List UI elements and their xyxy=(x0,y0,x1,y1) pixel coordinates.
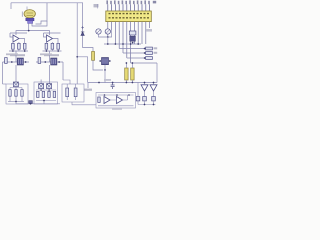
wire top supply rail xyxy=(11,2,83,4)
wire U1B output xyxy=(53,39,59,44)
capacitor C6 xyxy=(111,83,115,90)
node G2 xyxy=(115,43,117,45)
wire left stub xyxy=(10,3,12,9)
resistor R7 xyxy=(5,58,8,64)
crystal X1 xyxy=(129,31,136,41)
resistor R19 xyxy=(42,91,44,97)
wire right bottom rail xyxy=(138,104,156,106)
diode D3 xyxy=(143,97,147,101)
op-amp U1B xyxy=(47,35,53,42)
wire mic right lead xyxy=(32,21,47,26)
capacitor C4 xyxy=(125,68,128,80)
resistor R23 xyxy=(74,88,77,97)
node G1 xyxy=(107,43,109,45)
op-amp U1A stage top rail xyxy=(10,32,27,34)
node V2 plus mark xyxy=(81,26,84,29)
wire D4 out xyxy=(153,101,155,105)
transistor Q3 xyxy=(13,82,18,87)
op-amp U1B stage top rail xyxy=(44,32,61,34)
wire D2 out xyxy=(137,101,139,105)
resistor R16 xyxy=(15,90,17,97)
box filter module B2 xyxy=(34,82,58,104)
node P1 xyxy=(98,82,100,84)
microphone MIC1 body xyxy=(24,10,35,18)
node K1 left xyxy=(99,60,101,62)
resistor R18 xyxy=(37,91,39,97)
op-amp U1A xyxy=(13,35,19,42)
resistor R2 xyxy=(18,43,21,49)
transistor Q4 xyxy=(39,84,44,89)
node B2a xyxy=(40,89,42,91)
node B3 xyxy=(44,61,46,63)
node M3 xyxy=(128,94,130,96)
node mic plus stub xyxy=(26,7,28,11)
microphone MIC1 plug xyxy=(28,21,33,24)
wire U1A input stub xyxy=(10,33,13,37)
wire mic left lead xyxy=(28,23,30,30)
wire bottom power rail xyxy=(88,82,157,84)
node C5 top xyxy=(132,62,134,64)
op-amp U3B xyxy=(150,85,157,91)
IC U2 body xyxy=(106,11,152,22)
wire U1B out drop xyxy=(63,80,70,84)
resistor R14 xyxy=(98,97,100,102)
IC U2 pin labels xyxy=(106,0,156,4)
node C3 xyxy=(107,36,109,38)
wire out rail 3 xyxy=(127,57,146,59)
node rail1 xyxy=(144,48,146,50)
label xtal xyxy=(146,29,152,32)
wire P left stub xyxy=(87,83,89,89)
resistor R20 xyxy=(48,91,50,97)
node B2 xyxy=(25,61,27,63)
label rail2 xyxy=(154,52,158,54)
connector J2 xyxy=(29,101,33,104)
relay K1 xyxy=(102,58,109,65)
wire B2 top rail xyxy=(36,89,56,91)
wire C2 C3 link xyxy=(99,30,112,37)
wire module links xyxy=(110,95,128,100)
label U1A xyxy=(10,54,25,56)
wire module bottom rail xyxy=(98,105,134,107)
resistor R11 xyxy=(146,57,153,60)
box amplifier module xyxy=(96,93,136,109)
box filter module B3 xyxy=(62,84,84,102)
op-amp U3A xyxy=(141,85,148,91)
wire stage A to B left xyxy=(15,51,17,62)
IC U2 top pins xyxy=(108,4,150,11)
wire out rail 2 xyxy=(123,52,146,54)
node U1A out xyxy=(24,50,26,52)
node U1B out xyxy=(57,50,59,52)
diode D1 xyxy=(81,32,84,36)
node U1B gnd xyxy=(46,50,48,52)
capacitor C3 xyxy=(105,29,110,34)
box filter module B1 xyxy=(6,84,28,104)
node V1 branch xyxy=(76,56,78,58)
node B4 xyxy=(58,61,60,63)
capacitor C2 xyxy=(96,29,101,34)
node M1 xyxy=(104,94,106,96)
node B2 out xyxy=(43,100,45,102)
diode D2 xyxy=(136,97,140,101)
resistor R21 xyxy=(53,91,55,97)
label top mid xyxy=(94,4,99,7)
wire R1 top link xyxy=(13,41,25,44)
wire row B right rail xyxy=(36,61,63,63)
node P3 xyxy=(126,82,128,84)
wire B3 links xyxy=(67,84,75,100)
op-amp U4B xyxy=(117,97,123,104)
resistor R15 xyxy=(9,90,11,97)
node B1 out xyxy=(15,101,17,103)
wire U3A out xyxy=(144,91,146,97)
wire stage A to B right xyxy=(49,51,51,62)
wire row B left drop xyxy=(2,62,4,84)
wire frame right drop xyxy=(36,3,48,24)
node G4 xyxy=(130,43,132,45)
microphone MIC1 base band xyxy=(26,18,34,21)
wire C5 top xyxy=(131,63,133,68)
resistor R10 xyxy=(146,52,153,55)
wire U1B input stub xyxy=(44,33,47,37)
wire V1 branch to bottom rail xyxy=(77,57,87,83)
node K1 bottom xyxy=(104,69,106,71)
wire rail V2 xyxy=(83,3,93,52)
resistor R8 xyxy=(38,58,41,64)
op-amp U4A xyxy=(104,97,110,104)
resistor R9 xyxy=(146,47,153,50)
node R bottom 2 xyxy=(153,104,155,106)
wire IC ground rail xyxy=(104,43,141,45)
wire B1 links xyxy=(10,87,22,102)
wire module top rail xyxy=(98,94,134,96)
wire C5 bottom xyxy=(131,80,133,83)
node M2 xyxy=(116,94,118,96)
node C4 top xyxy=(126,62,128,64)
node rail2 xyxy=(144,52,146,54)
IC U2 bottom pins xyxy=(108,22,150,63)
resistor R5 xyxy=(51,43,54,49)
wire R legs B xyxy=(46,41,58,52)
wire R legs A xyxy=(13,49,25,51)
resistor R1 xyxy=(12,43,15,49)
wire out rail 4 xyxy=(131,62,157,64)
wire rail V1 xyxy=(76,3,78,62)
wire U3A feed xyxy=(144,83,146,85)
wire row B right end drop xyxy=(62,62,64,80)
label row B left xyxy=(6,53,18,55)
label module xyxy=(112,108,122,110)
node U3A top xyxy=(144,82,146,84)
resistor R17 xyxy=(21,90,23,97)
capacitor C5 xyxy=(131,68,134,80)
node rail3 xyxy=(144,57,146,59)
transistor Q2 xyxy=(51,58,57,65)
wire U1B bottom rail xyxy=(43,50,62,52)
wire out rail 1 xyxy=(119,48,145,50)
wire D3 out xyxy=(144,101,146,105)
capacitor C1 xyxy=(92,52,95,61)
label C6 xyxy=(104,79,111,81)
wire U3B feed xyxy=(153,83,155,85)
wire Q2 drop xyxy=(41,65,49,84)
resistor R3 xyxy=(23,43,26,49)
diode D4 xyxy=(152,97,156,101)
label U1B xyxy=(44,54,59,56)
node R bottom 1 xyxy=(144,104,146,106)
wire C1 bottom xyxy=(93,60,103,70)
node G3 xyxy=(122,43,124,45)
node P4 xyxy=(132,82,134,84)
node G5 xyxy=(137,43,139,45)
wire B1 bottom xyxy=(8,101,24,103)
wire C4 bottom xyxy=(125,80,127,83)
IC U2 text row 1 xyxy=(109,13,150,15)
wire stub top mid xyxy=(97,4,99,9)
node U3B top xyxy=(153,82,155,84)
wire C3 drop xyxy=(107,37,109,44)
node B1 xyxy=(11,61,13,63)
node U1A gnd xyxy=(12,50,14,52)
wire K1 bottom drop xyxy=(104,70,106,83)
wire B3 to module xyxy=(72,102,96,105)
wire left margin riser xyxy=(3,83,7,85)
wire D chain xyxy=(137,83,139,97)
wire input bus xyxy=(16,31,50,35)
node B2b xyxy=(48,89,50,91)
label P left xyxy=(84,89,92,91)
IC U2 text row 2 xyxy=(109,17,150,19)
resistor R22 xyxy=(66,88,69,97)
transistor Q1 xyxy=(17,58,23,65)
node K1 right xyxy=(109,60,111,62)
wire K1 drop xyxy=(104,65,106,70)
node P2 xyxy=(112,82,114,84)
wire V1 into box3 xyxy=(76,62,78,84)
resistor R4 xyxy=(45,43,48,49)
label row B right xyxy=(40,53,52,55)
wire U3B out xyxy=(153,91,155,97)
node X1 xyxy=(132,42,134,44)
wire C4 top xyxy=(125,63,127,68)
wire right edge drop xyxy=(156,63,158,83)
node mid bottom xyxy=(30,103,32,105)
resistor R6 xyxy=(57,43,60,49)
node J1 xyxy=(28,30,30,32)
transistor Q5 xyxy=(47,84,52,89)
wire Q1 drop xyxy=(15,65,17,82)
wire U1A bottom rail xyxy=(9,50,28,52)
wire B1 to B2 xyxy=(16,102,34,104)
wire U1A output xyxy=(19,39,25,44)
wire B2 bottom xyxy=(34,101,60,104)
label mic left tick xyxy=(21,12,23,17)
label rail1 xyxy=(154,47,158,49)
wire row B left rail xyxy=(3,61,30,63)
